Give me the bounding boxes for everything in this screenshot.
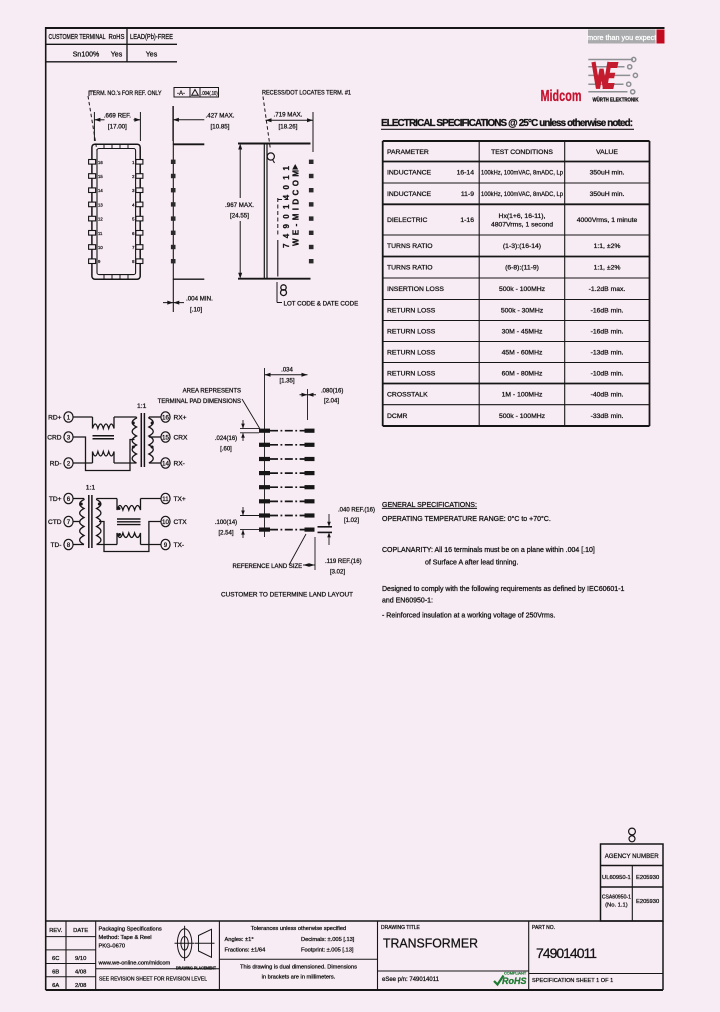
svg-text:Fractions: ±1/64: Fractions: ±1/64: [225, 948, 266, 954]
svg-text:CTD: CTD: [48, 519, 62, 526]
svg-text:TEST CONDITIONS: TEST CONDITIONS: [491, 149, 553, 156]
terminal 9 (TX-): [161, 539, 170, 549]
banner red square: [657, 30, 665, 44]
dimension .719 MAX [18.26]: [266, 112, 314, 152]
svg-text:UL60950-1: UL60950-1: [602, 875, 631, 881]
svg-text:INDUCTANCE: INDUCTANCE: [387, 170, 432, 177]
transformer T2 core: [88, 495, 90, 548]
svg-text:3: 3: [132, 188, 135, 193]
svg-text:.080(16): .080(16): [321, 389, 343, 395]
svg-text:15: 15: [98, 174, 103, 179]
svg-text:11: 11: [98, 231, 103, 236]
svg-text:1M - 100MHz: 1M - 100MHz: [502, 392, 543, 399]
pad row 8 left: [259, 528, 270, 532]
svg-text:TURNS RATIO: TURNS RATIO: [387, 265, 433, 272]
svg-text:PARAMETER: PARAMETER: [387, 149, 429, 156]
svg-text:500k - 100MHz: 500k - 100MHz: [499, 413, 546, 420]
svg-text:14: 14: [98, 188, 103, 193]
svg-text:1:1: 1:1: [137, 403, 147, 410]
wire T1 secondary to RX+: [149, 416, 161, 418]
pad row 4 right: [305, 471, 315, 475]
terminal 15 (CRX): [161, 432, 170, 442]
svg-text:RD+: RD+: [48, 414, 62, 421]
svg-text:100kHz, 100mVAC, 8mADC, Lp: 100kHz, 100mVAC, 8mADC, Lp: [481, 170, 563, 177]
svg-text:-13dB min.: -13dB min.: [591, 349, 624, 356]
dimension .040 REF.(16) [1.02]: [328, 514, 330, 525]
dimension .034 [1.35]: [265, 374, 308, 376]
svg-text:CUSTOMER TO DETERMINE LAND LAY: CUSTOMER TO DETERMINE LAND LAYOUT: [221, 592, 353, 599]
pad row 4 left: [259, 471, 270, 475]
terminal 8 (TD-): [64, 539, 73, 549]
cULus certification mark: [629, 828, 636, 842]
svg-text:PKG-0670: PKG-0670: [99, 944, 126, 950]
svg-text:9: 9: [98, 259, 101, 264]
svg-text:-40dB min.: -40dB min.: [591, 392, 624, 399]
svg-text:RX-: RX-: [174, 460, 185, 467]
svg-text:13: 13: [98, 202, 103, 207]
svg-text:Midcom: Midcom: [541, 88, 582, 105]
pad row 7 left: [259, 513, 270, 517]
svg-text:Angles: ±1°: Angles: ±1°: [225, 937, 254, 943]
transformer T1 primary winding: [132, 417, 136, 463]
dimension .427 MAX [10.85]: [173, 106, 204, 141]
polarity dots T1: [132, 422, 135, 425]
svg-text:[2.54]: [2.54]: [218, 531, 233, 537]
svg-text:DIELECTRIC: DIELECTRIC: [387, 217, 428, 224]
svg-text:-16dB min.: -16dB min.: [591, 328, 624, 335]
svg-text:10: 10: [98, 245, 103, 250]
pad row 6 left: [259, 499, 270, 503]
svg-text:[10.85]: [10.85]: [211, 123, 230, 130]
svg-text:AREA REPRESENTS: AREA REPRESENTS: [183, 389, 241, 395]
dimension .100(14) [2.54]: [240, 515, 259, 517]
banner: more than you expect: [588, 30, 656, 44]
svg-text:TD-: TD-: [51, 542, 62, 549]
svg-text:9: 9: [164, 542, 168, 549]
svg-text:6B: 6B: [52, 969, 59, 975]
pad row 8 right: [305, 528, 315, 532]
svg-text:1:1, ±2%: 1:1, ±2%: [594, 265, 621, 272]
WE letters: [594, 62, 610, 89]
svg-text:CRD: CRD: [47, 434, 62, 441]
svg-text:in brackets are in millimeters: in brackets are in millimeters.: [262, 975, 336, 981]
svg-text:6: 6: [67, 496, 71, 503]
terminal 6 (TD+): [64, 493, 73, 503]
svg-text:GENERAL SPECIFICATIONS:: GENERAL SPECIFICATIONS:: [382, 502, 477, 509]
dimension .119 REF.(16) [3.02]: [314, 537, 316, 570]
svg-text:.427 MAX.: .427 MAX.: [206, 112, 235, 119]
pad row 7 right: [305, 513, 315, 517]
svg-text:Method: Tape & Reel: Method: Tape & Reel: [99, 935, 152, 941]
svg-text:14: 14: [162, 460, 169, 467]
pad row 1 left: [259, 429, 270, 433]
svg-text:TRANSFORMER: TRANSFORMER: [383, 936, 478, 951]
svg-text:E205930: E205930: [636, 875, 659, 881]
choke L2 core: [117, 518, 141, 520]
pad row 3 left: [259, 457, 270, 461]
centerline row 4: [270, 472, 305, 474]
svg-text:7: 7: [67, 519, 71, 526]
svg-text:[.60]: [.60]: [220, 447, 232, 453]
svg-text:LOT CODE & DATE CODE: LOT CODE & DATE CODE: [284, 301, 359, 308]
svg-text:RETURN LOSS: RETURN LOSS: [387, 349, 436, 356]
pad row 5 right: [305, 485, 315, 489]
transformer T2 secondary winding: [97, 499, 101, 545]
svg-text:4: 4: [132, 202, 135, 207]
terminal 11 (TX+): [161, 493, 170, 503]
svg-text:TD+: TD+: [49, 496, 62, 503]
choke L1 core: [93, 435, 115, 437]
svg-text:30M - 45MHz: 30M - 45MHz: [502, 328, 543, 335]
centerline row 1: [270, 430, 305, 432]
wire CRD to T1 primary center tap: [73, 437, 134, 471]
dimension .967 MAX [24.55]: [239, 147, 241, 198]
svg-text:16: 16: [98, 160, 103, 165]
svg-text:4807Vrms, 1 second: 4807Vrms, 1 second: [491, 222, 553, 229]
wire T1 secondary center tap to CRX: [149, 436, 161, 438]
svg-text:.719 MAX.: .719 MAX.: [274, 112, 303, 119]
svg-text:2: 2: [67, 460, 71, 467]
svg-text:.004(.10): .004(.10): [201, 91, 218, 97]
svg-text:Hx(1+6, 16-11),: Hx(1+6, 16-11),: [499, 213, 546, 220]
svg-text:2/08: 2/08: [75, 983, 86, 989]
svg-text:WÜRTH ELEKTRONIK: WÜRTH ELEKTRONIK: [593, 97, 639, 104]
svg-text:Yes: Yes: [111, 52, 123, 59]
svg-text:COPLANARITY: All 16 terminals: COPLANARITY: All 16 terminals must be on…: [382, 547, 595, 554]
general specifications text: [382, 502, 625, 620]
centerline row 7: [270, 515, 305, 517]
land pattern centerline left column: [264, 368, 266, 537]
svg-text:60M - 80MHz: 60M - 80MHz: [502, 370, 543, 377]
svg-text:5: 5: [132, 217, 135, 222]
svg-text:1-16: 1-16: [460, 217, 474, 224]
rev/date entries: [49, 928, 88, 989]
svg-text:CRX: CRX: [174, 434, 189, 441]
lot code symbol: [276, 282, 278, 303]
svg-text:DRAWING TITLE: DRAWING TITLE: [381, 925, 421, 931]
svg-text:[1.35]: [1.35]: [279, 378, 294, 384]
polarity dots T2 and L2: [80, 503, 83, 506]
svg-text:11: 11: [162, 496, 169, 503]
wire RD+ to choke L1a: [73, 416, 92, 418]
svg-text:1:1: 1:1: [86, 485, 96, 492]
svg-text:1:1, ±2%: 1:1, ±2%: [594, 243, 621, 250]
svg-text:TURNS RATIO: TURNS RATIO: [387, 243, 433, 250]
svg-text:11-9: 11-9: [461, 191, 474, 198]
svg-text:Packaging Specifications: Packaging Specifications: [99, 927, 162, 933]
svg-text:.100(14): .100(14): [215, 520, 237, 526]
transformer T2 primary winding: [80, 499, 84, 545]
sheet border left: [45, 27, 47, 990]
pad row 6 right: [305, 499, 315, 503]
terminal 10 (CTX): [161, 516, 170, 526]
svg-text:Decimals: ±.005 [.13]: Decimals: ±.005 [.13]: [301, 937, 355, 943]
svg-text:[.10]: [.10]: [190, 307, 202, 314]
wire RD- to choke L1b: [73, 462, 92, 464]
package side view: [172, 106, 174, 312]
svg-text:.034: .034: [281, 368, 293, 374]
svg-text:-A-: -A-: [177, 91, 185, 97]
pad row 5 left: [259, 485, 270, 489]
svg-text:12: 12: [98, 217, 103, 222]
svg-text:-1.2dB max.: -1.2dB max.: [589, 286, 626, 293]
pad row 2 left: [259, 443, 270, 447]
reference land outline: [318, 526, 333, 528]
svg-text:This drawing is dual dimension: This drawing is dual dimensioned. Dimens…: [240, 965, 357, 971]
svg-text:WE-MIDCOM: WE-MIDCOM: [292, 170, 301, 246]
svg-text:[24.55]: [24.55]: [230, 213, 249, 220]
svg-text:DATE: DATE: [73, 928, 88, 934]
packaging info: [98, 927, 208, 983]
wire T1 secondary to RX-: [149, 462, 161, 464]
svg-text:CTX: CTX: [174, 519, 188, 526]
third angle projection symbol: [175, 926, 215, 961]
RoHS logo: [494, 972, 527, 987]
wire T2 secondary to choke L2b: [97, 544, 117, 546]
svg-text:TX+: TX+: [174, 496, 186, 503]
svg-text:500k - 30MHz: 500k - 30MHz: [501, 307, 544, 314]
svg-text:ELECTRICAL SPECIFICATIONS @ 25: ELECTRICAL SPECIFICATIONS @ 25°C unless …: [381, 118, 633, 129]
svg-text:Yes: Yes: [146, 52, 158, 59]
svg-text:Footprint: ±.005 [.13]: Footprint: ±.005 [.13]: [301, 948, 354, 954]
svg-text:100kHz, 100mVAC, 8mADC, Lp: 100kHz, 100mVAC, 8mADC, Lp: [481, 191, 563, 198]
choke L2 winding b: [117, 533, 141, 545]
centerline row 3: [270, 458, 305, 460]
terminal 1 (RD+): [64, 412, 73, 422]
agency number table: [601, 844, 664, 921]
terminal 16 (RX+): [161, 412, 170, 422]
dimension .004 MIN [.10]: [163, 302, 184, 304]
svg-text:PART NO.: PART NO.: [532, 925, 555, 931]
datum box -A- .004(.10): [174, 88, 219, 98]
hidden recess edge: [277, 198, 279, 235]
svg-text:LEAD(Pb)-FREE: LEAD(Pb)-FREE: [130, 34, 173, 41]
svg-text:4/08: 4/08: [75, 969, 86, 975]
svg-text:16-14: 16-14: [457, 170, 475, 177]
svg-text:OPERATING TEMPERATURE RANGE: 0: OPERATING TEMPERATURE RANGE: 0°C to +70°…: [382, 515, 551, 523]
svg-text:(1-3):(16-14): (1-3):(16-14): [503, 243, 541, 250]
wire T2 secondary center tap to CTX: [99, 522, 161, 552]
svg-text:eSee p/n: 749014011: eSee p/n: 749014011: [382, 977, 440, 983]
svg-text:of Surface A after lead tinnin: of Surface A after lead tinning.: [425, 560, 518, 567]
centerline row 8: [270, 529, 305, 531]
choke L1 winding a: [93, 417, 115, 429]
svg-text:TERM. NO.'s FOR REF. ONLY: TERM. NO.'s FOR REF. ONLY: [90, 91, 162, 97]
svg-text:Sn100%: Sn100%: [73, 52, 99, 59]
sheet border top: [45, 27, 665, 29]
svg-text:INSERTION LOSS: INSERTION LOSS: [387, 286, 444, 293]
svg-text:RX+: RX+: [174, 414, 187, 421]
transformer T1 secondary winding: [149, 417, 153, 463]
svg-text:6C: 6C: [52, 956, 59, 962]
wire T2 secondary to choke L2a: [97, 498, 117, 500]
svg-text:500k - 100MHz: 500k - 100MHz: [499, 286, 546, 293]
svg-text:7: 7: [132, 245, 135, 250]
pad row 3 right: [305, 457, 315, 461]
tolerances: [225, 926, 358, 981]
wire TD- to T2 primary: [73, 544, 84, 546]
svg-text:.024(16): .024(16): [215, 436, 237, 442]
svg-text:9/10: 9/10: [75, 956, 86, 962]
svg-text:TERMINAL PAD DIMENSIONS: TERMINAL PAD DIMENSIONS: [158, 399, 241, 405]
choke L2 winding a: [117, 499, 141, 511]
wire choke L1a to T1 primary: [114, 416, 137, 418]
terminal 7 (CTD): [64, 516, 73, 526]
svg-text:RoHS: RoHS: [502, 976, 527, 986]
svg-text:and EN60950-1:: and EN60950-1:: [382, 598, 433, 605]
svg-text:8: 8: [132, 259, 135, 264]
svg-text:SEE REVISION SHEET FOR REVISIO: SEE REVISION SHEET FOR REVISION LEVEL: [99, 977, 207, 983]
svg-text:CSA60950-1: CSA60950-1: [602, 895, 631, 901]
svg-text:1: 1: [132, 160, 135, 165]
wire choke L2b to TX-: [141, 544, 161, 546]
svg-text:15: 15: [162, 434, 169, 441]
svg-text:E205930: E205930: [636, 899, 659, 905]
svg-text:RETURN LOSS: RETURN LOSS: [387, 307, 436, 314]
svg-text:350uH min.: 350uH min.: [590, 170, 625, 177]
terminal 3 (CRD): [64, 432, 73, 442]
svg-text:6: 6: [132, 231, 135, 236]
dimension .024(16) [.60]: [240, 428, 259, 430]
svg-text:-33dB min.: -33dB min.: [591, 413, 624, 420]
svg-text:2: 2: [132, 174, 135, 179]
svg-text:DCMR: DCMR: [387, 413, 407, 420]
svg-text:INDUCTANCE: INDUCTANCE: [387, 191, 432, 198]
svg-text:SPECIFICATION SHEET 1 OF 1: SPECIFICATION SHEET 1 OF 1: [532, 978, 613, 984]
wire choke L2a to TX+: [141, 498, 161, 500]
svg-text:COMPLIANT: COMPLIANT: [504, 972, 527, 976]
terminal 2 (RD-): [64, 458, 73, 468]
transformer T1 core: [140, 413, 142, 467]
title block: [46, 921, 663, 990]
svg-text:Designed to comply with the fo: Designed to comply with the following re…: [382, 586, 625, 593]
svg-text:AGENCY NUMBER: AGENCY NUMBER: [605, 853, 659, 860]
pad row 1 right: [305, 429, 315, 433]
svg-text:(6-8):(11-9): (6-8):(11-9): [505, 265, 539, 272]
svg-text:6A: 6A: [52, 983, 59, 989]
svg-text:- Reinforced insulation at a w: - Reinforced insulation at a working vol…: [382, 613, 555, 620]
svg-text:[17.00]: [17.00]: [108, 123, 127, 130]
svg-text:.669 REF.: .669 REF.: [104, 112, 131, 119]
svg-text:8: 8: [67, 542, 71, 549]
svg-text:10: 10: [162, 519, 169, 526]
svg-text:REFERENCE LAND SIZE: REFERENCE LAND SIZE: [233, 564, 303, 570]
land pattern centerline right top: [307, 389, 309, 420]
recess circle: [267, 153, 274, 160]
package top view: [92, 144, 140, 279]
svg-text:VALUE: VALUE: [596, 149, 618, 156]
svg-text:RECESS/DOT LOCATES TERM. #1: RECESS/DOT LOCATES TERM. #1: [262, 91, 352, 97]
dimension .080(16) [2.04]: [300, 394, 317, 396]
dimension .669 REF [17.00]: [94, 112, 140, 141]
svg-text:TX-: TX-: [174, 542, 185, 549]
svg-text:350uH min.: 350uH min.: [590, 191, 625, 198]
svg-text:CROSSTALK: CROSSTALK: [387, 392, 428, 399]
svg-text:more than you expect: more than you expect: [587, 33, 656, 42]
svg-text:.040 REF.(16): .040 REF.(16): [338, 508, 375, 514]
svg-text:16: 16: [162, 414, 169, 421]
svg-text:-16dB min.: -16dB min.: [591, 307, 624, 314]
svg-text:www.we-online.com/midcom: www.we-online.com/midcom: [98, 961, 171, 967]
svg-text:RETURN LOSS: RETURN LOSS: [387, 370, 436, 377]
svg-text:RETURN LOSS: RETURN LOSS: [387, 328, 436, 335]
svg-text:[3.02]: [3.02]: [330, 570, 345, 576]
Wurth Elektronik logo: [588, 57, 637, 94]
svg-text:.119 REF.(16): .119 REF.(16): [325, 559, 362, 565]
svg-text:[2.04]: [2.04]: [324, 399, 339, 405]
centerline row 6: [270, 500, 305, 502]
svg-text:RD-: RD-: [50, 460, 62, 467]
svg-text:RoHS: RoHS: [109, 34, 125, 41]
wire TD+ to T2 primary: [73, 498, 84, 500]
svg-text:3: 3: [67, 434, 71, 441]
svg-text:[18.26]: [18.26]: [279, 123, 298, 130]
svg-text:REV.: REV.: [49, 928, 62, 934]
choke L1 winding b: [93, 452, 115, 464]
pad row 2 right: [305, 443, 315, 447]
wire choke L1b to T1 primary: [114, 462, 137, 464]
customer terminal table: [46, 28, 177, 62]
svg-text:-10dB min.: -10dB min.: [591, 370, 624, 377]
svg-text:749014011: 749014011: [282, 165, 291, 248]
svg-text:45M - 60MHz: 45M - 60MHz: [502, 349, 543, 356]
svg-text:.967 MAX.: .967 MAX.: [225, 202, 254, 209]
svg-text:CUSTOMER TERMINAL: CUSTOMER TERMINAL: [49, 34, 106, 41]
svg-text:[1.02]: [1.02]: [344, 518, 359, 524]
electrical specifications table: [383, 141, 650, 426]
svg-text:Tolerances unless otherwise sp: Tolerances unless otherwise specified: [251, 926, 346, 932]
terminal 14 (RX-): [161, 458, 170, 468]
package bottom view with marking: [238, 143, 311, 145]
svg-text:4000Vrms, 1 minute: 4000Vrms, 1 minute: [577, 217, 638, 224]
centerline row 2: [270, 444, 305, 446]
svg-text:.004 MIN.: .004 MIN.: [186, 296, 213, 303]
svg-text:DRAWING PLACEMENT: DRAWING PLACEMENT: [176, 966, 216, 971]
svg-text:1: 1: [67, 414, 71, 421]
svg-text:(No. 1.1): (No. 1.1): [605, 903, 628, 909]
centerline row 5: [270, 486, 305, 488]
svg-text:749014011: 749014011: [536, 945, 597, 961]
wire CTD to T2 primary center tap: [73, 521, 80, 523]
